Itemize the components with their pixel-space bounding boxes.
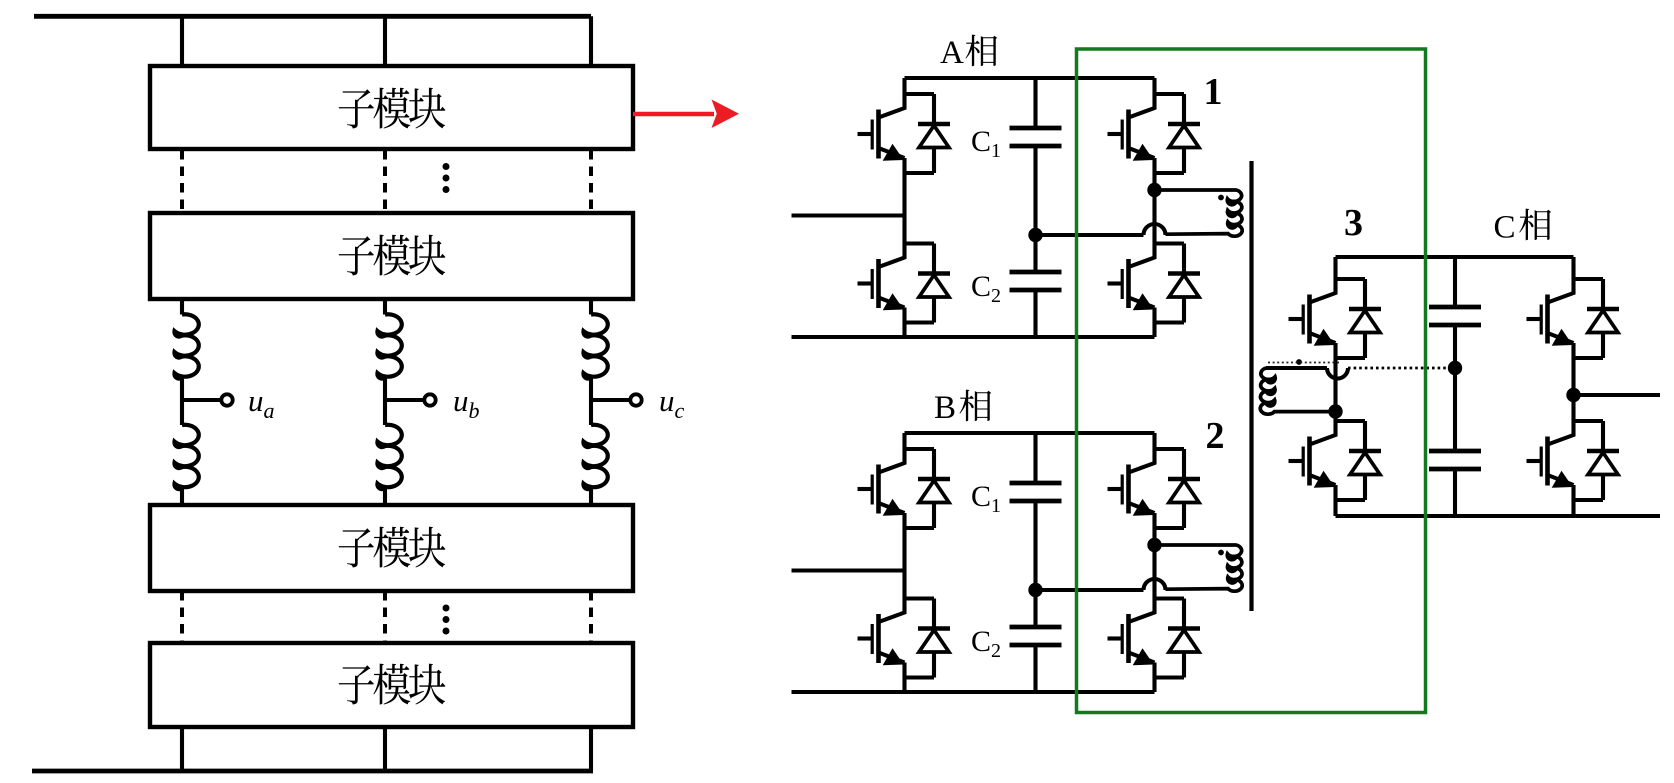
wire A left AC input: [792, 213, 905, 217]
transistor C lower IGBT+diode: [1527, 421, 1620, 500]
transistor unit3 lower IGBT+diode: [1289, 421, 1382, 500]
wire bottom DC bus: [32, 769, 593, 774]
wire unit3/C bottom DC rail: [1336, 514, 1661, 518]
wire B left AC input: [792, 568, 905, 572]
wire A unit leg bottom: [1152, 323, 1156, 338]
wire A left leg middle: [902, 173, 906, 244]
transistor A left upper IGBT+diode: [858, 94, 951, 173]
winding B unit primary: [1155, 545, 1243, 591]
wire C cap column top: [1453, 257, 1457, 305]
wire B cap column bottom: [1033, 647, 1037, 692]
wire B cap column mid: [1033, 503, 1037, 625]
wire dashed link lower 3: [589, 591, 593, 642]
node C leg midpoint: [1566, 388, 1580, 402]
capacitor B C2: [1010, 627, 1062, 645]
red arrow to submodule detail: [633, 112, 714, 117]
wire A cap column bottom: [1033, 292, 1037, 337]
wire B top DC rail: [905, 431, 1155, 435]
wire A left leg bottom: [902, 323, 906, 338]
node u_b terminal: [385, 398, 423, 402]
svg-text:1: 1: [1204, 71, 1223, 113]
transistor B unit upper IGBT+diode: [1108, 449, 1201, 528]
inductor upper arm a: [174, 314, 198, 378]
wire C leg bottom: [1571, 500, 1575, 516]
wire B unit leg upper: [1152, 433, 1156, 449]
wire unit3/C top DC rail: [1336, 255, 1574, 259]
transformer core: [1249, 161, 1253, 611]
wire A cap column top: [1033, 78, 1037, 126]
transistor B unit lower IGBT+diode: [1108, 599, 1201, 678]
green highlight box: [1077, 49, 1426, 713]
wire arm phase c: [589, 299, 593, 315]
wire A cap column mid: [1033, 148, 1037, 270]
inductor lower arm b: [377, 425, 401, 489]
wire unit3 winding artifact dotted: [1268, 362, 1340, 364]
transistor A left lower IGBT+diode: [858, 244, 951, 323]
wire B midpoint link: [1036, 588, 1144, 592]
wire B cap column top: [1033, 433, 1037, 481]
wire unit3 leg middle: [1333, 358, 1337, 421]
capacitor C-phase lower: [1429, 451, 1481, 469]
wire B left leg middle: [902, 528, 906, 599]
wire B bottom DC rail: [792, 690, 1155, 694]
node u_c terminal: [591, 398, 629, 402]
wire C leg upper: [1571, 257, 1575, 279]
wire winding hop over unit3 leg: [1327, 368, 1348, 379]
wire dashed link lower 1: [180, 591, 184, 642]
submodule box SM1: [150, 66, 633, 149]
wire unit3 leg upper: [1333, 257, 1337, 279]
wire top bus drop 1: [180, 16, 184, 66]
winding unit3 secondary: [1260, 368, 1335, 414]
polarity dot B winding: [1218, 550, 1224, 556]
node B cap midpoint: [1028, 583, 1042, 597]
wire C AC output: [1574, 393, 1661, 397]
wire A bottom DC rail: [792, 335, 1155, 339]
transistor A unit upper IGBT+diode: [1108, 94, 1201, 173]
capacitor C-phase upper: [1429, 307, 1481, 325]
wire A top DC rail: [905, 76, 1155, 80]
wire arm phase a: [180, 299, 184, 315]
node A cap midpoint: [1028, 228, 1042, 242]
polarity dot A winding: [1218, 195, 1224, 201]
node u_a terminal: [182, 398, 220, 402]
wire top DC bus: [34, 14, 591, 19]
wire unit3 leg bottom: [1333, 500, 1337, 516]
wire dashed link upper 2: [383, 150, 387, 212]
wire top bus drop 3: [589, 16, 593, 66]
node C cap midpoint: [1448, 361, 1462, 375]
wire dashed link upper 3: [589, 150, 593, 212]
wire bottom drop 1: [180, 727, 184, 771]
ellipsis dots upper: [443, 163, 450, 170]
inductor upper arm c: [583, 314, 607, 378]
transistor B left upper IGBT+diode: [858, 449, 951, 528]
wire dotted link to C cap midpoint: [1348, 367, 1447, 370]
wire B unit leg middle: [1152, 528, 1156, 599]
transistor B left lower IGBT+diode: [858, 599, 951, 678]
node B unit-leg junction: [1147, 538, 1161, 552]
wire arm phase b: [383, 299, 387, 315]
wire A left leg upper: [902, 78, 906, 94]
wire dashed link lower 2: [383, 591, 387, 642]
wire bottom drop 2: [383, 727, 387, 771]
polarity dot unit3 winding: [1296, 359, 1302, 365]
capacitor A C1: [1010, 128, 1062, 146]
submodule box SM4: [150, 643, 633, 727]
wire C cap column bottom: [1453, 471, 1457, 516]
inductor upper arm b: [377, 314, 401, 378]
wire B left leg upper: [902, 433, 906, 449]
wire C leg middle: [1571, 358, 1575, 421]
wire A unit leg middle: [1152, 173, 1156, 244]
node A unit-leg junction: [1147, 183, 1161, 197]
node unit3 leg junction: [1328, 404, 1342, 418]
svg-text:3: 3: [1344, 202, 1363, 244]
svg-text:A: A: [940, 35, 964, 71]
submodule box SM2: [150, 213, 633, 299]
wire A unit leg upper: [1152, 78, 1156, 94]
transistor C upper IGBT+diode: [1527, 279, 1620, 358]
wire B unit leg bottom: [1152, 678, 1156, 693]
wire top bus drop 2: [383, 16, 387, 66]
submodule box SM3: [150, 505, 633, 591]
winding A unit primary: [1155, 190, 1243, 236]
wire bottom drop 3: [589, 727, 593, 771]
wire C cap column mid: [1453, 327, 1457, 451]
wire B left leg bottom: [902, 678, 906, 693]
ellipsis dots lower: [443, 605, 450, 612]
transistor A unit lower IGBT+diode: [1108, 244, 1201, 323]
wire dashed link upper 1: [180, 150, 184, 212]
svg-text:2: 2: [1206, 415, 1225, 457]
inductor lower arm a: [174, 425, 198, 489]
inductor lower arm c: [583, 425, 607, 489]
svg-text:B: B: [934, 390, 956, 426]
svg-text:C: C: [1494, 210, 1516, 246]
capacitor A C2: [1010, 272, 1062, 290]
capacitor B C1: [1010, 483, 1062, 501]
transistor unit3 upper IGBT+diode: [1289, 279, 1382, 358]
wire A midpoint link: [1036, 233, 1144, 237]
